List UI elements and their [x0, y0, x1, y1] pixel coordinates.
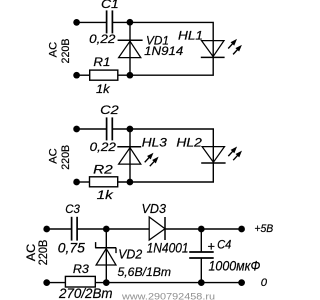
svg-text:HL2: HL2: [176, 137, 202, 150]
svg-text:R3: R3: [73, 263, 90, 276]
node junction bottom (VD2): [103, 279, 110, 286]
svg-text:1k: 1k: [96, 83, 111, 96]
terminal dot bottom-left (circuit 3): [43, 279, 50, 286]
svg-text:5,6В/1Вт: 5,6В/1Вт: [118, 265, 172, 279]
wire C4 branch upper: [200, 229, 202, 252]
svg-text:C2: C2: [100, 104, 119, 117]
wire VD2 branch vertical: [105, 229, 107, 283]
wire top-left to C1: [77, 21, 107, 23]
LED HL3: [117, 147, 141, 164]
AC 220V source label (circuit 3): [26, 239, 50, 265]
LED emission arrows (HL3): [143, 151, 161, 168]
svg-text:270/2Вт: 270/2Вт: [58, 285, 113, 300]
terminal dot top-left (circuit 2): [73, 126, 80, 133]
terminal dot top-left (circuit 1): [73, 19, 80, 26]
LED HL2: [201, 147, 225, 163]
node junction top (VD2 tap): [103, 226, 110, 233]
capacitor C2: [107, 117, 113, 140]
terminal dot +5V: [238, 226, 245, 233]
svg-text:1N914: 1N914: [144, 45, 184, 58]
svg-text:AC: AC: [26, 244, 38, 262]
svg-text:R1: R1: [93, 56, 110, 69]
svg-text:1k: 1k: [97, 189, 114, 202]
capacitor C4 (polarized): [189, 252, 214, 258]
svg-text:HL1: HL1: [178, 29, 203, 42]
svg-text:+5В: +5В: [254, 223, 273, 235]
svg-text:0,22: 0,22: [90, 141, 117, 154]
svg-text:R2: R2: [93, 164, 113, 177]
wire bottom-left (circuit 1): [77, 74, 90, 76]
svg-text:AC: AC: [48, 148, 60, 164]
LED emission arrows (HL2): [226, 145, 243, 162]
svg-text:1000мкФ: 1000мкФ: [209, 258, 261, 274]
svg-text:+: +: [207, 239, 215, 254]
wire HL3 branch vertical: [129, 129, 131, 182]
svg-text:0,22: 0,22: [89, 33, 116, 46]
svg-text:C3: C3: [65, 202, 80, 216]
wire top from C1 to right corner down to HL1: [112, 22, 213, 40]
svg-text:www.290792458.ru: www.290792458.ru: [121, 292, 215, 300]
terminal dot 0: [238, 279, 245, 286]
svg-text:0: 0: [261, 277, 268, 289]
resistor R2: [90, 177, 118, 187]
svg-text:C1: C1: [101, 0, 119, 11]
wire bottom from R3 to 0 terminal: [95, 282, 241, 284]
capacitor C1: [107, 10, 113, 33]
svg-text:C4: C4: [217, 238, 232, 252]
svg-text:1N4001: 1N4001: [147, 240, 189, 256]
wire C4 branch lower: [200, 258, 202, 283]
diode VD1: [118, 40, 143, 57]
wire top from C3 to VD3: [77, 228, 149, 230]
terminal dot bottom-left (circuit 1): [73, 72, 80, 79]
node junction bottom (C4): [198, 279, 205, 286]
node junction top (C2 / HL3): [127, 126, 134, 133]
svg-text:VD3: VD3: [142, 201, 167, 216]
AC 220V source label (circuit 2): [48, 145, 72, 170]
zener diode VD2: [95, 242, 116, 265]
node junction bottom (VD1 / R1): [127, 72, 134, 79]
wire top-left to C3: [47, 228, 72, 230]
wire bottom-left (circuit 2): [77, 181, 90, 183]
LED emission arrows (HL1): [226, 37, 243, 56]
svg-text:220В: 220В: [60, 39, 72, 64]
terminal dot top-left (circuit 3): [43, 226, 50, 233]
wire bottom-left to R3: [47, 282, 66, 284]
wire top from C2 to right corner down to HL2: [112, 129, 213, 147]
wire right side below HL1 and bottom to R1: [118, 57, 213, 75]
AC 220V source label (circuit 1): [48, 39, 72, 64]
terminal dot bottom-left (circuit 2): [73, 179, 80, 186]
svg-text:VD2: VD2: [118, 247, 142, 261]
resistor R3: [65, 276, 95, 287]
LED HL1: [201, 41, 225, 58]
svg-text:220В: 220В: [60, 145, 72, 170]
svg-text:220В: 220В: [38, 239, 50, 265]
diode VD3: [149, 217, 165, 240]
node junction top (C1 / VD1): [127, 19, 134, 26]
resistor R1: [90, 70, 118, 80]
node junction bottom (HL3 / R2): [127, 179, 134, 186]
svg-text:AC: AC: [48, 42, 60, 58]
wire right side below HL2 and bottom to R2: [118, 163, 214, 182]
svg-text:0,75: 0,75: [58, 241, 85, 256]
node junction top (C4 tap): [198, 226, 205, 233]
wire VD1 branch vertical: [129, 22, 131, 75]
svg-text:HL3: HL3: [142, 136, 168, 149]
capacitor C3: [72, 217, 78, 241]
wire top from VD3 to +5V terminal: [165, 228, 242, 230]
wire top-left to C2: [77, 128, 107, 130]
